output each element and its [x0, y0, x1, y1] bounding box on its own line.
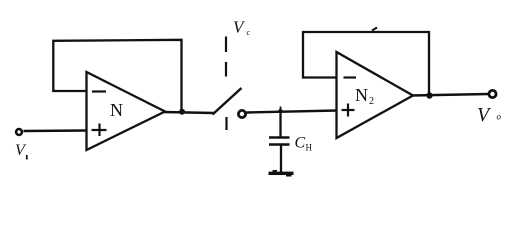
svg-text:N: N: [110, 100, 123, 120]
switch contact terminal: [238, 110, 245, 117]
svg-text:N: N: [355, 85, 368, 105]
svg-text:H: H: [306, 143, 313, 153]
node output of N: [179, 109, 185, 115]
node capacitor junction: [278, 109, 282, 113]
op-amp N2 minus input symbol: [344, 76, 357, 78]
ground: [269, 172, 294, 175]
control line Vc dashed: [225, 37, 227, 53]
artifact tick above N2 feedback: [372, 28, 377, 31]
wire feedback loop of N2: [303, 32, 429, 94]
op-amp N minus input symbol: [92, 90, 106, 92]
svg-text:c: c: [247, 28, 251, 37]
capacitor CH: [279, 111, 281, 137]
switch arm: [213, 88, 242, 115]
output terminal Vo: [489, 90, 496, 97]
wire input to op-amp N: [24, 129, 88, 132]
input terminal Vi: [16, 129, 22, 135]
op-amp N plus input symbol: [92, 129, 107, 131]
svg-text:2: 2: [369, 96, 374, 107]
wire N output to switch: [163, 112, 214, 113]
svg-text:o: o: [497, 112, 502, 122]
op-amp N2 plus input symbol: [342, 109, 355, 111]
op-amp U1 N triangle: [87, 72, 166, 150]
wire N2 output to terminal: [411, 94, 489, 96]
svg-text:C: C: [295, 135, 306, 152]
op-amp U2 N2 triangle: [337, 52, 414, 138]
wire capacitor to ground: [280, 145, 282, 173]
wire feedback loop of N: [53, 40, 181, 110]
node output of N2: [426, 92, 432, 98]
wire switch to op-amp N2: [247, 111, 338, 113]
